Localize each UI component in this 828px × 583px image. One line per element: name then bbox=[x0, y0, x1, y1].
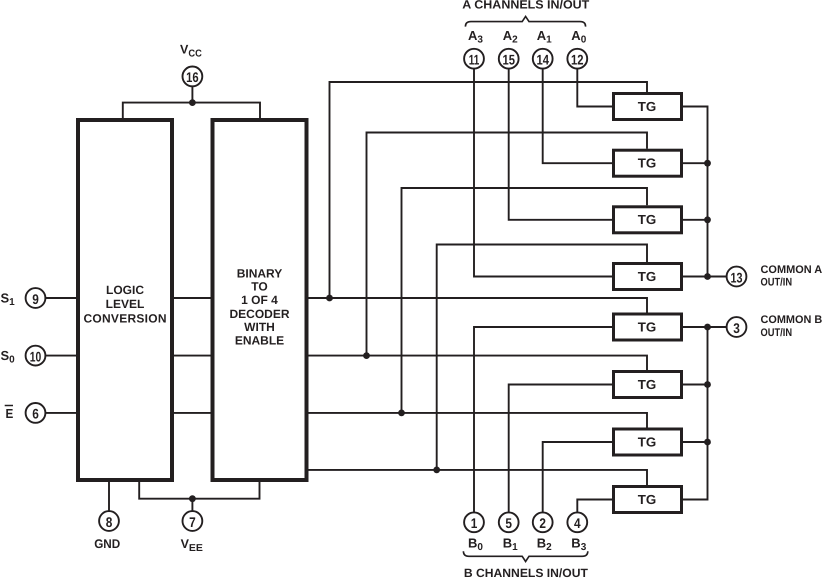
svg-text:TG: TG bbox=[638, 434, 657, 449]
svg-text:TG: TG bbox=[638, 377, 657, 392]
ground GND pin 8 bbox=[94, 511, 120, 551]
junction riser 4 bbox=[433, 467, 440, 474]
wire B3 channel to TG8 input bbox=[577, 500, 612, 513]
svg-text:A CHANNELS IN/OUT: A CHANNELS IN/OUT bbox=[462, 0, 590, 12]
transmission gate TG2 bbox=[614, 150, 682, 176]
pin 14 A1 bbox=[533, 28, 553, 69]
wire TG2 output stub bbox=[683, 162, 708, 164]
wire A0 channel to TG1 input bbox=[577, 69, 612, 107]
junction TG6 output on bus B bbox=[704, 381, 711, 388]
svg-text:10: 10 bbox=[30, 348, 42, 364]
pin 4 B3 bbox=[567, 512, 587, 553]
pin 5 B1 bbox=[499, 512, 519, 553]
wire A3 channel to TG4 input bbox=[474, 69, 612, 277]
label U2 BINARY TO 1 OF 4 DECODER WITH ENABLE bbox=[229, 266, 289, 347]
wire TG6 output stub bbox=[683, 384, 708, 386]
wire U1 to U2 row S0 bbox=[174, 355, 211, 357]
wire VCC rail to both block tops bbox=[123, 103, 260, 120]
svg-text:9: 9 bbox=[32, 291, 39, 307]
wire S1 to U1 bbox=[46, 297, 79, 299]
wire common A bus bbox=[683, 107, 708, 277]
junction VEE rail bbox=[189, 495, 196, 502]
svg-text:B CHANNELS IN/OUT: B CHANNELS IN/OUT bbox=[464, 566, 589, 578]
svg-text:1 OF 4: 1 OF 4 bbox=[241, 293, 278, 307]
wire E to U1 bbox=[46, 412, 79, 414]
pin 11 A3 bbox=[464, 28, 484, 69]
wire VEE rail from U1 and U2 bottoms bbox=[139, 480, 259, 499]
wire VEE drop to pin 7 bbox=[191, 499, 193, 511]
wire common B bus bbox=[683, 327, 708, 500]
wire riser decoder output 3 to TG3 control bbox=[402, 188, 648, 413]
pin 1 B0 bbox=[464, 512, 484, 553]
junction TG2 output on bus A bbox=[704, 160, 711, 167]
transmission gate TG5 bbox=[614, 314, 682, 340]
pin 2 B2 bbox=[533, 512, 553, 553]
wire U1 to U2 row E bbox=[174, 412, 211, 414]
wire VCC vertical from pin 16 to rail bbox=[191, 87, 193, 103]
svg-text:TG: TG bbox=[638, 269, 657, 284]
transmission gate TG7 bbox=[614, 429, 682, 455]
brace under B channel pins bbox=[463, 551, 587, 561]
svg-text:3: 3 bbox=[733, 320, 740, 336]
wire TG3 output stub bbox=[683, 219, 708, 221]
pin 9 S1 bbox=[1, 288, 46, 308]
wire U1 to U2 row S1 bbox=[174, 297, 211, 299]
wire TG4 output to pin 13 bbox=[683, 276, 727, 278]
svg-text:14: 14 bbox=[536, 52, 549, 68]
block U1 LOGIC LEVEL CONVERSION bbox=[78, 120, 172, 480]
wire B0 channel to TG5 input bbox=[474, 327, 612, 512]
svg-text:13: 13 bbox=[731, 269, 743, 285]
svg-text:TG: TG bbox=[638, 212, 657, 227]
svg-text:WITH: WITH bbox=[244, 320, 275, 334]
pin 13 COMMON A OUT/IN bbox=[727, 264, 823, 289]
svg-text:4: 4 bbox=[574, 515, 581, 531]
wire riser decoder output 2 to TG2 control bbox=[367, 133, 648, 356]
transmission gate TG3 bbox=[614, 207, 682, 233]
wire B2 channel to TG7 input bbox=[543, 442, 612, 512]
wire A2 channel to TG3 input bbox=[509, 69, 612, 220]
power VEE pin 7 bbox=[181, 511, 204, 554]
svg-text:GND: GND bbox=[94, 537, 120, 551]
svg-text:LOGIC: LOGIC bbox=[106, 283, 144, 297]
transmission gate TG4 bbox=[614, 264, 682, 290]
svg-text:ENABLE: ENABLE bbox=[235, 333, 284, 347]
wire S0 to U1 bbox=[46, 355, 79, 357]
junction TG5 output on bus B bbox=[704, 324, 711, 331]
wire decoder output 2 to TG6 control bbox=[309, 356, 648, 370]
label U1 LOGIC LEVEL CONVERSION bbox=[84, 283, 167, 325]
wire GND stub from U1 bbox=[108, 480, 110, 511]
brace over A channel pins bbox=[465, 16, 585, 26]
svg-text:DECODER: DECODER bbox=[229, 307, 289, 321]
svg-text:TG: TG bbox=[638, 99, 657, 114]
svg-text:OUT/IN: OUT/IN bbox=[761, 327, 793, 339]
wire decoder output 1 to TG5 control bbox=[309, 298, 648, 313]
svg-text:LEVEL: LEVEL bbox=[106, 297, 145, 311]
junction VCC rail bbox=[189, 99, 196, 106]
pin 10 S0 bbox=[1, 346, 46, 366]
junction riser 1 bbox=[326, 295, 333, 302]
wire TG5 output to pin 3 bbox=[683, 326, 727, 328]
svg-text:15: 15 bbox=[502, 52, 515, 68]
svg-text:E: E bbox=[6, 406, 14, 421]
wire A1 channel to TG2 input bbox=[543, 69, 612, 164]
svg-text:TG: TG bbox=[638, 492, 657, 507]
svg-text:CONVERSION: CONVERSION bbox=[84, 311, 167, 325]
svg-text:TO: TO bbox=[251, 280, 267, 294]
pin 15 A2 bbox=[499, 28, 519, 69]
svg-text:7: 7 bbox=[189, 514, 196, 530]
wire riser decoder output 1 to TG1 control bbox=[330, 82, 648, 298]
junction TG4 output on bus A bbox=[704, 273, 711, 280]
svg-text:16: 16 bbox=[186, 69, 199, 85]
svg-text:COMMON A: COMMON A bbox=[761, 264, 823, 276]
wire riser decoder output 4 to TG4 control bbox=[437, 245, 647, 470]
svg-text:OUT/IN: OUT/IN bbox=[761, 277, 793, 289]
transmission gate TG8 bbox=[614, 487, 682, 513]
pin 3 COMMON B OUT/IN bbox=[727, 314, 823, 339]
svg-text:6: 6 bbox=[32, 406, 39, 422]
transmission gate TG6 bbox=[614, 372, 682, 398]
svg-text:2: 2 bbox=[539, 515, 546, 531]
wire decoder output 4 to TG8 control bbox=[309, 470, 648, 485]
junction riser 3 bbox=[398, 410, 405, 417]
svg-text:COMMON B: COMMON B bbox=[761, 314, 823, 326]
svg-text:8: 8 bbox=[106, 514, 113, 530]
transmission gate TG1 bbox=[614, 94, 682, 120]
svg-text:1: 1 bbox=[471, 515, 478, 531]
pin 12 A0 bbox=[567, 28, 587, 69]
svg-text:5: 5 bbox=[505, 515, 512, 531]
svg-text:TG: TG bbox=[638, 156, 657, 171]
wire TG7 output stub bbox=[683, 441, 708, 443]
junction TG3 output on bus A bbox=[704, 216, 711, 223]
pin 6 E-bar enable bbox=[5, 403, 46, 423]
wire B1 channel to TG6 input bbox=[509, 385, 612, 513]
junction riser 2 bbox=[363, 352, 370, 359]
svg-text:12: 12 bbox=[571, 52, 584, 68]
power VCC pin 16 bbox=[180, 42, 202, 86]
wire decoder output 3 to TG7 control bbox=[309, 413, 648, 428]
junction TG7 output on bus B bbox=[704, 439, 711, 446]
block U2 BINARY TO 1 OF 4 DECODER WITH ENABLE bbox=[213, 120, 307, 480]
svg-text:BINARY: BINARY bbox=[237, 266, 283, 280]
svg-text:TG: TG bbox=[638, 319, 657, 334]
svg-text:11: 11 bbox=[469, 52, 480, 68]
